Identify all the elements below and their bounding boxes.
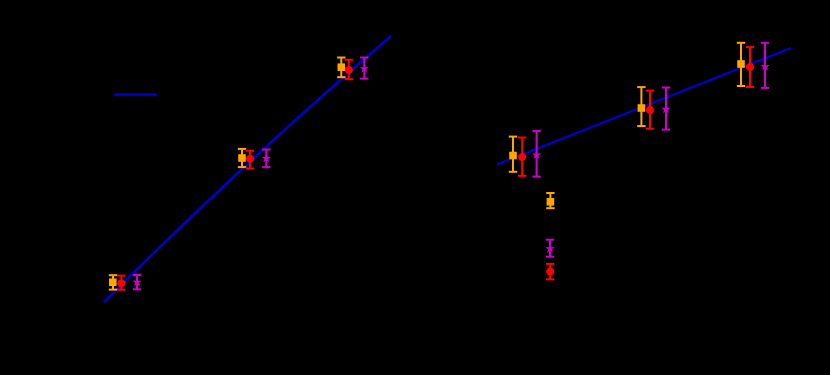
P2 red errorbar: [246, 151, 254, 169]
P6 magenta errorbar: [761, 43, 769, 88]
P4 orange square marker: [509, 152, 517, 160]
P2 magenta errorbar: [262, 150, 270, 168]
isolated red circle marker: [546, 268, 554, 276]
P3 red errorbar: [345, 60, 353, 79]
P3 magenta star marker: [360, 64, 369, 73]
P5 orange errorbar: [637, 87, 645, 126]
P1 orange square marker: [109, 278, 117, 286]
P3 magenta errorbar: [360, 58, 368, 79]
right panel fit line: [497, 48, 791, 165]
P1 red circle marker: [117, 279, 125, 287]
P4 orange errorbar: [509, 137, 517, 172]
P2 orange errorbar: [238, 149, 246, 167]
P6 red errorbar: [746, 47, 754, 87]
isolated orange errorbar: [546, 193, 554, 208]
P4 magenta star marker: [532, 150, 541, 159]
P2 orange square marker: [238, 154, 246, 162]
P1 magenta star marker: [132, 277, 141, 286]
isolated magenta errorbar: [546, 240, 554, 257]
P6 orange square marker: [737, 60, 745, 68]
P5 magenta star marker: [661, 104, 670, 113]
isolated orange square marker: [547, 198, 555, 206]
left panel fit line: [104, 36, 391, 302]
P5 red circle marker: [646, 106, 654, 114]
left panel legend line sample: [114, 93, 157, 95]
P5 orange square marker: [638, 104, 646, 112]
P5 magenta errorbar: [662, 88, 670, 130]
P3 orange errorbar: [337, 58, 345, 78]
isolated red errorbar: [546, 264, 554, 279]
P1 red errorbar: [117, 276, 125, 290]
P6 red circle marker: [746, 63, 754, 71]
P6 orange errorbar: [737, 43, 745, 86]
P5 red errorbar: [646, 91, 654, 129]
P4 red errorbar: [518, 138, 526, 176]
P2 magenta star marker: [262, 154, 271, 163]
P1 orange errorbar: [109, 275, 117, 289]
P4 red circle marker: [518, 153, 526, 161]
P3 red circle marker: [345, 66, 353, 74]
P2 red circle marker: [246, 155, 254, 163]
P6 magenta star marker: [760, 62, 769, 71]
P3 orange square marker: [338, 63, 346, 71]
isolated magenta star marker: [545, 244, 554, 253]
P4 magenta errorbar: [532, 131, 540, 177]
P1 magenta errorbar: [133, 275, 141, 289]
